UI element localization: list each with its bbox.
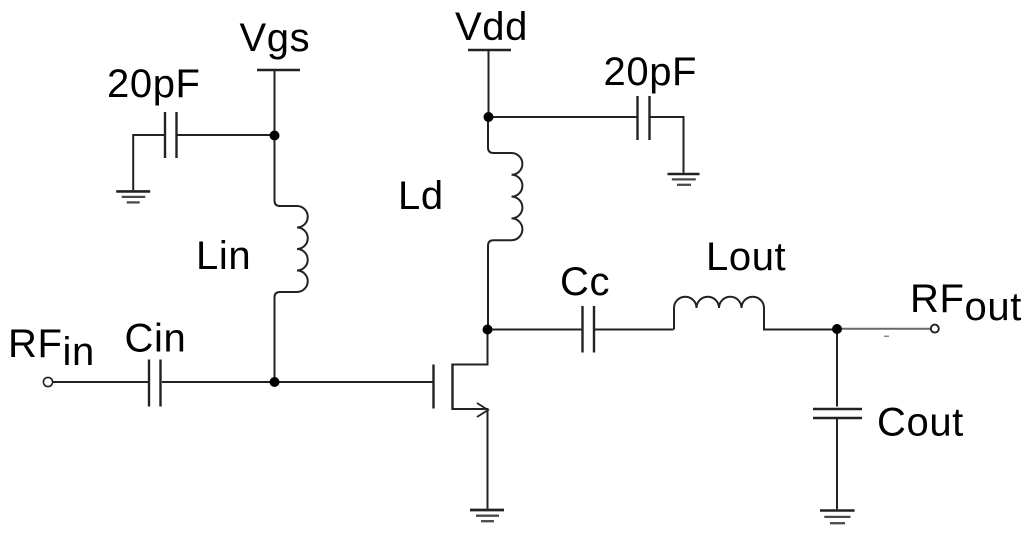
svg-text:Vdd: Vdd <box>455 5 528 49</box>
svg-text:Vgs: Vgs <box>240 16 311 60</box>
svg-text:Lin: Lin <box>196 234 251 278</box>
svg-text:Cout: Cout <box>877 401 964 445</box>
svg-text:RFin: RFin <box>8 322 95 374</box>
svg-text:Cc: Cc <box>560 260 610 304</box>
svg-text:20pF: 20pF <box>604 50 698 94</box>
svg-text:RFout: RFout <box>910 277 1022 329</box>
svg-text:Lout: Lout <box>706 235 786 279</box>
svg-text:Ld: Ld <box>398 174 444 218</box>
svg-text:Cin: Cin <box>125 317 187 361</box>
svg-text:20pF: 20pF <box>107 62 201 106</box>
